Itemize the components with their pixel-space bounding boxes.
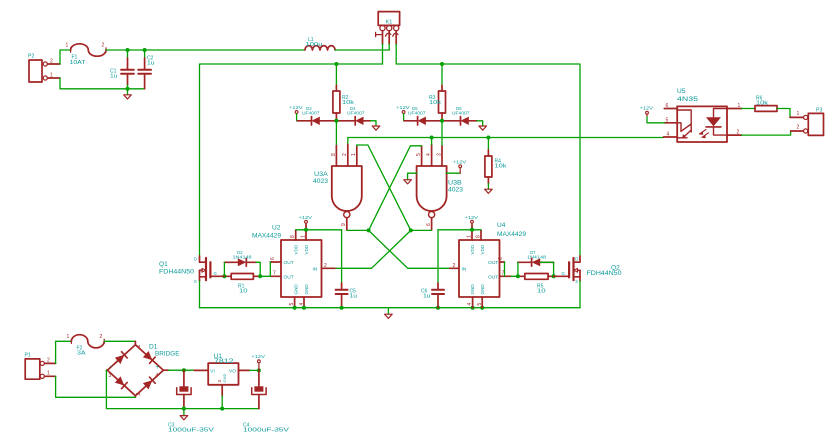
diode D4 UF4007 xyxy=(336,106,370,125)
svg-text:2: 2 xyxy=(324,263,327,269)
svg-text:1: 1 xyxy=(738,103,741,109)
svg-text:1u: 1u xyxy=(350,294,358,300)
svg-text:8: 8 xyxy=(475,235,481,238)
wire U5 pin1 to R6 xyxy=(742,108,755,110)
+12V flag at U2 xyxy=(299,215,313,223)
svg-text:FDH44N50: FDH44N50 xyxy=(159,269,194,276)
wire bridge minus to rail xyxy=(106,370,183,408)
inductor L1 xyxy=(305,37,335,50)
junction C3 bottom xyxy=(182,407,186,411)
svg-text:2: 2 xyxy=(100,334,103,340)
wire P2.1 bottom xyxy=(60,78,145,89)
junction R1 left xyxy=(222,274,226,278)
svg-text:5: 5 xyxy=(289,303,295,306)
wire U5 pin2 to P3 pin2 xyxy=(742,131,791,135)
resistor R1 xyxy=(224,274,260,295)
diode D2 1N4148 xyxy=(224,250,256,266)
svg-text:VDD: VDD xyxy=(480,244,485,254)
wire right HV rail xyxy=(396,64,580,256)
svg-text:U2: U2 xyxy=(272,225,281,232)
svg-text:5: 5 xyxy=(477,303,483,306)
svg-text:+12V: +12V xyxy=(251,354,265,359)
+12V flag at D5 xyxy=(396,105,410,113)
svg-text:4: 4 xyxy=(299,303,305,306)
capacitor C4 (polarized) xyxy=(243,370,290,433)
resistor R5 xyxy=(518,274,554,295)
svg-text:4: 4 xyxy=(467,303,473,306)
svg-text:GND: GND xyxy=(480,284,485,295)
svg-text:UF4007: UF4007 xyxy=(452,111,470,116)
wire +12V to U5 pin5 xyxy=(647,117,664,123)
junction R5 left xyxy=(516,274,520,278)
svg-text:8: 8 xyxy=(331,153,337,156)
relay K1 xyxy=(376,12,400,45)
svg-text:5: 5 xyxy=(666,117,669,123)
svg-text:+: + xyxy=(156,365,160,371)
svg-text:4: 4 xyxy=(156,373,159,379)
wire clamp B to U3B pin3 xyxy=(441,121,443,146)
svg-text:GND: GND xyxy=(294,284,299,295)
junction C4 top xyxy=(257,368,261,372)
wire gnd rail mid xyxy=(200,307,581,309)
junction C6 bottom xyxy=(436,306,440,310)
resistor R6 xyxy=(755,96,777,112)
fuse F2 xyxy=(67,334,105,357)
svg-text:D: D xyxy=(194,257,197,262)
svg-text:6: 6 xyxy=(426,223,432,226)
resistor R2 xyxy=(333,64,355,121)
+12V flag at U4 xyxy=(465,215,479,223)
junction C2 top xyxy=(143,48,147,52)
svg-text:UF4007: UF4007 xyxy=(302,111,320,116)
wire +12V to D3 xyxy=(296,114,299,121)
nand gate U3A 4023 xyxy=(313,145,362,230)
svg-text:IN: IN xyxy=(313,266,318,272)
svg-text:+12V: +12V xyxy=(465,215,479,220)
svg-text:VDD: VDD xyxy=(470,244,475,254)
junction clamp node B xyxy=(440,119,444,123)
ground at D6 xyxy=(479,126,487,130)
wire L1 to K1 coil xyxy=(335,49,389,51)
svg-text:1: 1 xyxy=(351,153,357,156)
junction U3A out xyxy=(367,228,371,232)
svg-text:1u: 1u xyxy=(110,74,118,80)
wire VO out xyxy=(250,369,259,371)
wire P1.2 to F2 xyxy=(56,341,72,363)
svg-text:VI: VI xyxy=(210,369,215,375)
junction R3 top xyxy=(440,62,444,66)
svg-text:1: 1 xyxy=(66,43,69,49)
connector P1 xyxy=(25,353,56,380)
ground at C1 xyxy=(124,89,132,99)
svg-text:P3: P3 xyxy=(816,108,822,114)
junction U4 gnd pin5 xyxy=(480,306,484,310)
transistor Q1 FDH44N50 xyxy=(159,256,224,284)
fuse F1 xyxy=(66,43,107,67)
wire U3A out to U4 IN xyxy=(369,230,450,268)
+12V flag at U5 xyxy=(640,106,654,114)
svg-text:3A: 3A xyxy=(77,351,86,357)
svg-text:1: 1 xyxy=(797,111,800,117)
svg-text:VDD: VDD xyxy=(304,244,309,254)
wire F1 to L1 (+V rail) xyxy=(106,49,305,51)
wire K1 pin left down xyxy=(382,44,384,64)
op-amp driver U4 MAX4429 xyxy=(450,222,527,308)
svg-text:7: 7 xyxy=(273,271,276,277)
wire U3B out to U2 IN xyxy=(335,230,411,268)
svg-text:2: 2 xyxy=(136,393,142,396)
svg-text:2: 2 xyxy=(797,125,800,131)
wire R6 to P3 pin1 xyxy=(777,109,790,118)
svg-text:BRIDGE: BRIDGE xyxy=(155,351,180,358)
svg-text:MAX4429: MAX4429 xyxy=(497,231,526,238)
wire U3A output xyxy=(347,229,369,231)
junction R5 right xyxy=(552,274,556,278)
svg-text:10k: 10k xyxy=(429,100,442,106)
svg-text:1000uF-35V: 1000uF-35V xyxy=(168,428,215,434)
junction U1 gnd xyxy=(220,407,224,411)
wire bridge plus to VI xyxy=(169,369,195,371)
svg-text:+12V: +12V xyxy=(289,105,303,110)
svg-text:D: D xyxy=(575,256,578,261)
svg-text:P2: P2 xyxy=(28,54,34,60)
svg-text:OUT: OUT xyxy=(284,274,294,280)
svg-text:1N4148: 1N4148 xyxy=(233,255,253,260)
svg-text:2: 2 xyxy=(50,59,53,65)
wire D7 anode to R5 xyxy=(540,262,553,276)
regulator U1 7812 xyxy=(194,353,249,396)
svg-text:+12V: +12V xyxy=(453,159,467,164)
junction U2 gnd pin4 xyxy=(302,306,306,310)
wire Q1 source down xyxy=(199,281,201,308)
diode D3 UF4007 xyxy=(297,106,336,125)
svg-text:GND: GND xyxy=(222,374,227,383)
wire U2 OUT to R1 xyxy=(260,275,270,277)
svg-text:D1: D1 xyxy=(149,344,158,351)
svg-text:2: 2 xyxy=(737,130,740,136)
svg-text:1: 1 xyxy=(67,334,70,340)
junction R4 tap xyxy=(486,136,490,140)
svg-text:G: G xyxy=(562,271,565,276)
resistor R3 xyxy=(429,64,446,121)
junction clamp node A xyxy=(334,119,338,123)
svg-text:2: 2 xyxy=(342,153,348,156)
svg-text:1u: 1u xyxy=(147,61,155,67)
wire U1 gnd down xyxy=(221,396,223,409)
svg-text:6: 6 xyxy=(270,257,276,260)
svg-text:+12V: +12V xyxy=(640,106,654,111)
svg-text:OUT: OUT xyxy=(488,274,498,280)
svg-text:1u: 1u xyxy=(423,294,431,300)
svg-text:4023: 4023 xyxy=(313,178,328,185)
svg-text:2: 2 xyxy=(47,358,50,364)
svg-text:10: 10 xyxy=(537,289,546,295)
ground at C3 xyxy=(180,409,188,420)
svg-text:VO: VO xyxy=(229,369,236,375)
svg-text:10k: 10k xyxy=(756,101,769,107)
wire U3B pin4 riser xyxy=(431,138,433,145)
svg-text:5: 5 xyxy=(416,153,422,156)
+12V flag at U1 output xyxy=(251,354,265,362)
wire U2 OUT6 to OUT7 xyxy=(269,262,271,276)
wire U3B output xyxy=(411,229,432,231)
junction C5 bottom xyxy=(340,306,344,310)
wire opto emitter net xyxy=(348,138,664,145)
svg-text:U3B: U3B xyxy=(448,180,462,187)
wire U4 VDD to C6 xyxy=(438,229,481,231)
svg-text:6: 6 xyxy=(666,103,669,109)
svg-text:1: 1 xyxy=(300,235,306,238)
svg-text:1000uF-35V: 1000uF-35V xyxy=(243,428,290,434)
diode D6 UF4007 xyxy=(442,106,477,125)
svg-text:3: 3 xyxy=(109,373,112,379)
ground at U3B xyxy=(404,180,412,184)
optocoupler U5 4N35 xyxy=(664,88,742,142)
svg-text:OUT: OUT xyxy=(284,260,294,266)
svg-text:10AT: 10AT xyxy=(70,60,86,66)
svg-text:K1: K1 xyxy=(386,20,393,26)
wire bottom gnd rail PSU xyxy=(184,408,259,410)
svg-text:2: 2 xyxy=(453,263,456,269)
wire D4 to ground xyxy=(371,121,377,126)
junction U3B out xyxy=(409,228,413,232)
resistor R4 xyxy=(485,138,507,184)
svg-text:8: 8 xyxy=(290,235,296,238)
diode D7 1N4148 xyxy=(518,250,554,266)
connector P2 xyxy=(28,54,60,83)
junction U2 gnd pin5 xyxy=(293,306,297,310)
svg-text:S: S xyxy=(194,279,197,284)
capacitor C5 xyxy=(336,230,358,308)
svg-text:1: 1 xyxy=(466,235,472,238)
svg-text:U3A: U3A xyxy=(314,171,329,178)
wire K1 pin right down xyxy=(395,44,397,64)
junction U4 VDD xyxy=(470,228,474,232)
capacitor C2 xyxy=(138,50,154,89)
junction C1 top xyxy=(126,48,130,52)
svg-text:7812: 7812 xyxy=(214,358,234,365)
capacitor C6 xyxy=(421,230,444,308)
svg-text:VDD: VDD xyxy=(294,244,299,254)
ground at R4 xyxy=(485,184,493,194)
svg-text:S: S xyxy=(575,279,578,284)
svg-text:1: 1 xyxy=(136,345,142,348)
svg-text:3: 3 xyxy=(217,380,222,383)
svg-text:10: 10 xyxy=(239,289,248,295)
diode D5 UF4007 xyxy=(404,106,442,125)
svg-text:+12V: +12V xyxy=(299,215,313,220)
+12V flag at D3 xyxy=(289,105,303,113)
svg-text:GND: GND xyxy=(470,284,475,295)
junction C1 bottom xyxy=(126,87,130,91)
bridge rectifier D1 xyxy=(106,341,180,397)
wire D2 cathode to R1 xyxy=(256,262,260,276)
wire P2.2 to F1 xyxy=(60,50,71,64)
wire K1 coil pin down xyxy=(388,44,390,50)
svg-text:1: 1 xyxy=(47,371,50,377)
capacitor C3 (polarized) xyxy=(168,370,215,434)
junction R1 right xyxy=(258,274,262,278)
svg-text:FDH44N50: FDH44N50 xyxy=(587,270,622,277)
svg-text:1: 1 xyxy=(50,73,53,79)
wire D7 cathode to R5 xyxy=(517,262,519,276)
capacitor C1 xyxy=(110,50,134,89)
junction U4 gnd pin4 xyxy=(471,306,475,310)
svg-text:4: 4 xyxy=(667,132,670,138)
svg-text:4: 4 xyxy=(426,153,432,156)
svg-text:6: 6 xyxy=(498,257,504,260)
svg-text:U5: U5 xyxy=(677,88,686,95)
transistor Q2 FDH44N50 xyxy=(554,256,622,284)
svg-text:2: 2 xyxy=(102,43,105,49)
svg-text:MAX4429: MAX4429 xyxy=(252,233,281,240)
wire U2 VDD to C5 xyxy=(296,229,342,231)
connector P3 xyxy=(797,108,824,136)
ground main rail xyxy=(385,308,393,319)
svg-text:G: G xyxy=(214,271,217,276)
wire U4 OUT6 to OUT7 xyxy=(504,262,506,276)
wire U3A pin1 cross feedback xyxy=(357,145,411,230)
junction R2 top xyxy=(334,62,338,66)
junction C3 top xyxy=(182,368,186,372)
svg-text:1N4148: 1N4148 xyxy=(527,255,547,260)
junction U2 VDD xyxy=(304,228,308,232)
svg-text:+12V: +12V xyxy=(396,105,410,110)
+12V flag at U3B xyxy=(453,159,467,167)
wire D2 anode to R1 xyxy=(223,262,225,276)
wire Q2 source down xyxy=(579,281,581,308)
svg-text:−: − xyxy=(110,364,114,370)
wire F2 to bridge AC1 xyxy=(104,340,135,342)
wire D6 to ground xyxy=(477,121,483,126)
op-amp driver U2 MAX4429 xyxy=(252,225,335,308)
wire U4 OUT to R5 xyxy=(511,275,518,277)
wire U3B vdd pin xyxy=(446,172,460,174)
ground at D4 xyxy=(372,126,380,130)
svg-text:100u: 100u xyxy=(306,42,323,48)
junction U3B pin4 tap xyxy=(430,136,434,140)
svg-text:GND: GND xyxy=(304,284,309,295)
svg-text:3: 3 xyxy=(436,153,442,156)
svg-text:Q1: Q1 xyxy=(159,261,168,268)
svg-text:OUT: OUT xyxy=(488,260,498,266)
wire U3B pin5 cross feedback xyxy=(369,146,422,231)
nand gate U3B 4023 xyxy=(416,145,463,230)
wire U3B gnd pin xyxy=(408,173,417,180)
svg-text:IN: IN xyxy=(462,266,467,272)
svg-text:UF4007: UF4007 xyxy=(408,111,426,116)
svg-text:P1: P1 xyxy=(25,353,31,359)
wire +12V to D5 xyxy=(403,114,406,121)
svg-text:10k: 10k xyxy=(495,164,508,170)
svg-text:9: 9 xyxy=(341,223,347,226)
svg-text:4N35: 4N35 xyxy=(677,96,698,103)
svg-text:UF4007: UF4007 xyxy=(347,111,365,116)
wire clamp A to U3A pin8 xyxy=(335,121,337,146)
wire P1.1 to bridge AC2 xyxy=(56,376,136,397)
svg-text:4023: 4023 xyxy=(448,187,463,194)
wire left HV rail xyxy=(200,64,383,256)
svg-text:U4: U4 xyxy=(497,222,506,229)
